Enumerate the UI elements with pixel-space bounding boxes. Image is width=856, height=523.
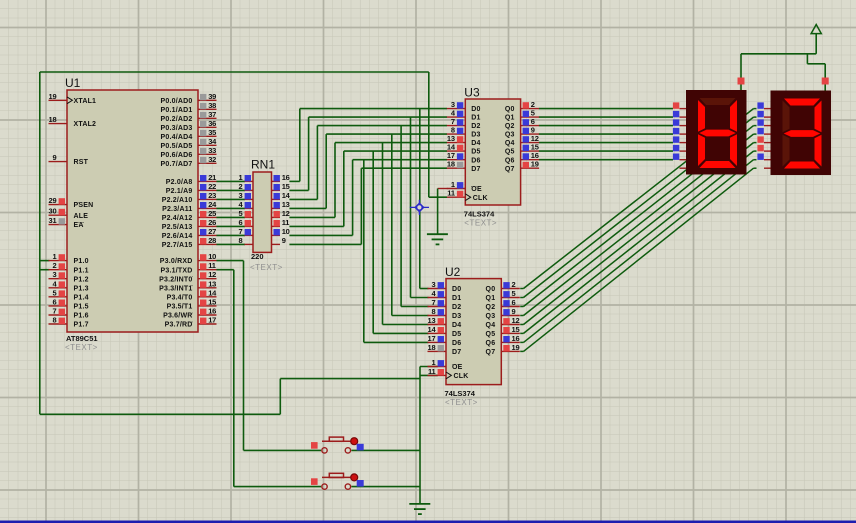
svg-text:13: 13: [428, 316, 436, 325]
RN1 pin 6: [239, 218, 253, 227]
svg-text:11: 11: [428, 367, 436, 376]
svg-text:27: 27: [208, 227, 216, 236]
svg-text:P3.0/RXD: P3.0/RXD: [160, 258, 193, 265]
wire: P2.0 to RN1 pin 1: [216, 180, 245, 182]
svg-text:D7: D7: [471, 166, 480, 173]
svg-text:P2.0/A8: P2.0/A8: [166, 179, 193, 186]
svg-text:P2.4/A12: P2.4/A12: [162, 215, 193, 222]
RN1 pin 10: [272, 227, 290, 236]
svg-text:P1.4: P1.4: [74, 294, 89, 301]
wire: P2.4 to RN1 pin 5: [216, 216, 245, 218]
svg-text:XTAL2: XTAL2: [74, 121, 97, 128]
svg-text:14: 14: [282, 191, 291, 200]
ground (bottom rail): [409, 504, 430, 514]
U1 pin 18 (XTAL2): [49, 115, 68, 124]
7-segment display DS2 (shows 3): [757, 91, 831, 176]
svg-text:Q3: Q3: [486, 313, 496, 320]
wire: P2.7 to RN1 pin 8: [216, 243, 245, 245]
svg-text:3: 3: [239, 191, 243, 200]
svg-text:1: 1: [53, 252, 57, 261]
DS2 segment pin 5: [764, 150, 771, 152]
RN1 pin 2: [239, 182, 253, 191]
svg-text:P2.1/A9: P2.1/A9: [166, 188, 193, 195]
U2 pin 13 (D4): [428, 316, 447, 325]
wire: U3 Q5 to display DS1 segment pin: [539, 150, 673, 152]
svg-text:OE: OE: [471, 186, 482, 193]
svg-text:5: 5: [512, 289, 516, 298]
svg-text:P3.4/T0: P3.4/T0: [167, 294, 193, 301]
svg-text:11: 11: [208, 261, 216, 270]
svg-text:D1: D1: [471, 115, 480, 122]
wire: branch down to U2 D6: [364, 160, 429, 343]
svg-text:18: 18: [49, 115, 57, 124]
svg-text:D6: D6: [471, 157, 480, 164]
svg-text:P0.2/AD2: P0.2/AD2: [161, 116, 193, 123]
latch U3 74LS374: [447, 86, 539, 228]
svg-text:74LS374: 74LS374: [464, 210, 495, 219]
svg-text:26: 26: [208, 218, 216, 227]
svg-text:14: 14: [208, 288, 217, 297]
svg-text:11: 11: [447, 189, 455, 198]
U3 pin 12 (Q4): [521, 134, 540, 143]
svg-text:AT89C51: AT89C51: [66, 334, 98, 343]
U2 pin 19 (Q7): [501, 343, 520, 352]
svg-text:P1.3: P1.3: [74, 285, 89, 292]
svg-text:P1.5: P1.5: [74, 304, 89, 311]
svg-text:D5: D5: [471, 149, 480, 156]
svg-text:D2: D2: [471, 123, 480, 130]
wire: P3.0/RXD to button 1: [216, 261, 321, 451]
svg-text:Q7: Q7: [486, 349, 496, 356]
svg-text:8: 8: [53, 316, 57, 325]
U3 pin 17 (D6): [447, 151, 466, 160]
U3 pin 3 (D0): [447, 100, 466, 109]
RN1 pin 14: [272, 191, 291, 200]
7-segment display DS1 (shows U with middle bar): [673, 90, 747, 175]
U2 pin 18 (D7): [428, 343, 447, 352]
svg-text:CLK: CLK: [473, 195, 488, 202]
svg-text:P3.1/TXD: P3.1/TXD: [161, 267, 193, 274]
U1 pin 34 (P0.5/AD5): [198, 137, 217, 146]
U3 pin 15 (Q5): [521, 143, 540, 152]
U1 pin 16 (P3.6/WR): [198, 307, 217, 316]
svg-text:P2.6/A14: P2.6/A14: [162, 233, 193, 240]
RN1 pin 11: [272, 218, 290, 227]
svg-text:35: 35: [208, 128, 216, 137]
wire: branch down to U2 D5: [373, 151, 428, 333]
U1 pin 28 (P2.7/A15): [198, 236, 217, 245]
RN1 pin 4: [239, 200, 253, 209]
svg-text:12: 12: [208, 270, 216, 279]
DS1 segment pin 3: [680, 133, 687, 135]
U1 pin 9 (RST): [49, 153, 68, 162]
wire: branch down to U2 D1: [411, 117, 429, 297]
svg-text:28: 28: [208, 236, 216, 245]
svg-text:2: 2: [53, 261, 57, 270]
U3 pin 11 (CLK): [447, 189, 466, 198]
svg-text:12: 12: [512, 316, 520, 325]
svg-text:EA: EA: [74, 222, 84, 229]
svg-text:18: 18: [447, 160, 455, 169]
svg-text:D4: D4: [471, 140, 480, 147]
svg-text:10: 10: [282, 227, 290, 236]
wire: U3 Q6 to display DS1 segment pin: [539, 159, 673, 161]
svg-text:RN1: RN1: [251, 158, 275, 172]
RN1 pin 7: [239, 227, 253, 236]
wire: RN1 pin 16 up to U3 D0: [289, 109, 447, 182]
svg-text:74LS374: 74LS374: [445, 389, 476, 398]
U1 pin 26 (P2.5/A13): [198, 218, 217, 227]
svg-text:P3.3/INT1: P3.3/INT1: [159, 285, 192, 292]
U1 pin 32 (P0.7/AD7): [198, 155, 217, 164]
wire: U3 Q0 to display DS1 segment pin: [539, 108, 673, 110]
U1 pin 14 (P3.4/T0): [198, 288, 217, 297]
U2 pin 9 (Q3): [501, 307, 520, 316]
svg-text:Q2: Q2: [505, 123, 515, 130]
RN1 pin 1: [239, 173, 253, 182]
svg-text:34: 34: [208, 137, 217, 146]
svg-text:D5: D5: [452, 331, 461, 338]
U3 pin 19 (Q7): [521, 160, 540, 169]
power rail VCC to displays: [741, 34, 825, 91]
svg-text:24: 24: [208, 200, 217, 209]
svg-text:P2.5/A13: P2.5/A13: [162, 224, 193, 231]
svg-text:OE: OE: [452, 364, 463, 371]
svg-text:P3.2/INT0: P3.2/INT0: [159, 276, 192, 283]
svg-text:<TEXT>: <TEXT>: [464, 219, 497, 228]
U3 pin 7 (D2): [447, 117, 466, 126]
svg-text:D7: D7: [452, 349, 461, 356]
U1 pin 1 (P1.0): [49, 252, 68, 261]
svg-text:9: 9: [282, 236, 286, 245]
wire: U2 Q1 diagonal to display DS2 pin: [520, 117, 756, 297]
svg-text:15: 15: [512, 325, 520, 334]
DS1 segment pin 1: [680, 116, 687, 118]
svg-text:PSEN: PSEN: [74, 202, 94, 209]
wire: RN1 pin 15 up to U3 D1: [289, 117, 447, 190]
U1 pin 4 (P1.3): [49, 279, 68, 288]
svg-text:14: 14: [428, 325, 437, 334]
svg-text:16: 16: [208, 307, 216, 316]
svg-text:Q4: Q4: [505, 140, 515, 147]
DS2 segment pin 3: [764, 133, 771, 135]
U3 pin 4 (D1): [447, 109, 466, 118]
U3 pin 1 (OE): [447, 180, 466, 189]
svg-text:13: 13: [208, 279, 216, 288]
svg-text:19: 19: [512, 343, 520, 352]
wire: branch down to U2 D2: [401, 126, 428, 307]
U1 pin 22 (P2.1/A9): [198, 182, 217, 191]
DS1 segment pin 4: [680, 142, 687, 144]
DS2 segment pin 0: [764, 108, 771, 110]
wire: branch down to U2 D0: [420, 109, 429, 289]
svg-text:U1: U1: [65, 76, 81, 90]
wire: U2 Q0 diagonal to display DS2 pin: [520, 109, 756, 289]
RN1 pin 12: [272, 209, 290, 218]
svg-text:P0.4/AD4: P0.4/AD4: [161, 134, 193, 141]
svg-text:U2: U2: [445, 265, 461, 279]
svg-text:25: 25: [208, 209, 216, 218]
U1 pin 10 (P3.0/RXD): [198, 252, 217, 261]
wire: branch down to U2 D3: [392, 134, 429, 315]
push button 1: [311, 437, 364, 453]
DS1 segment c: [730, 134, 737, 166]
DS2 segment pin 7: [764, 167, 771, 169]
DS2 segment g: [784, 130, 821, 137]
wire: riser at x=280: [279, 379, 281, 415]
U1 pin 36 (P0.3/AD3): [198, 119, 217, 128]
U1 pin 31 (EA): [49, 216, 68, 225]
DS1 segment pin 0: [680, 108, 687, 110]
wire: U2 OE link: [420, 366, 438, 368]
U1 pin 37 (P0.2/AD2): [198, 110, 217, 119]
svg-text:P0.3/AD3: P0.3/AD3: [161, 125, 193, 132]
U3 pin 14 (D5): [447, 143, 466, 152]
U1 pin 6 (P1.5): [49, 297, 68, 306]
svg-text:D6: D6: [452, 340, 461, 347]
DS1 segment pin 2: [680, 125, 687, 127]
svg-text:P1.6: P1.6: [74, 313, 89, 320]
svg-text:D3: D3: [471, 132, 480, 139]
U1 pin 15 (P3.5/T1): [198, 297, 217, 306]
wire: P2.2 to RN1 pin 3: [216, 198, 245, 200]
DS2 segment pin 1: [764, 116, 771, 118]
svg-text:D2: D2: [452, 304, 461, 311]
wire: U2 Q6 diagonal to display DS2 pin: [520, 160, 756, 343]
svg-text:220: 220: [251, 252, 264, 261]
wire: RN1 pin 14 up to U3 D2: [289, 126, 447, 200]
wire: U3 Q2 to display DS1 segment pin: [539, 125, 673, 127]
wire: horizontal to U2 CLK junction: [280, 378, 420, 380]
DS1 segment pin 5: [680, 150, 687, 152]
svg-text:1: 1: [451, 180, 455, 189]
wire: RN1 pin 12 up to U3 D4: [289, 143, 447, 218]
op chip U1 AT89C51: [49, 76, 218, 352]
U2 pin 5 (Q1): [501, 289, 520, 298]
svg-text:17: 17: [428, 334, 436, 343]
wire: U2 Q7 diagonal to display DS2 pin: [520, 168, 756, 351]
svg-text:23: 23: [208, 191, 216, 200]
svg-text:21: 21: [208, 173, 216, 182]
svg-text:36: 36: [208, 119, 216, 128]
svg-text:D0: D0: [471, 106, 480, 113]
svg-text:U3: U3: [464, 86, 480, 100]
U2 pin 17 (D6): [428, 334, 447, 343]
svg-text:RST: RST: [74, 159, 89, 166]
DS1 segment d: [700, 161, 736, 168]
RN1 pin 5: [239, 209, 253, 218]
svg-text:Q2: Q2: [486, 304, 496, 311]
latch U2 74LS374: [428, 265, 520, 407]
svg-text:6: 6: [239, 218, 243, 227]
svg-text:Q5: Q5: [505, 149, 515, 156]
svg-text:P2.7/A15: P2.7/A15: [162, 242, 193, 249]
wire: U2 Q3 diagonal to display DS2 pin: [520, 134, 756, 315]
wire: net P1.0/P1.1 left vertical: [39, 72, 41, 414]
DS1 segment a: [700, 98, 736, 105]
window bottom edge: [0, 521, 856, 523]
svg-text:Q6: Q6: [505, 157, 515, 164]
RN1 pin 13: [272, 200, 290, 209]
U2 pin 16 (Q6): [501, 334, 520, 343]
U3 pin 6 (Q2): [521, 117, 540, 126]
svg-text:9: 9: [512, 307, 516, 316]
svg-text:P1.2: P1.2: [74, 276, 89, 283]
svg-text:Q3: Q3: [505, 132, 515, 139]
svg-text:P0.5/AD5: P0.5/AD5: [161, 143, 193, 150]
svg-text:Q0: Q0: [505, 106, 515, 113]
svg-text:13: 13: [282, 200, 290, 209]
svg-text:1: 1: [432, 358, 436, 367]
svg-text:Q5: Q5: [486, 331, 496, 338]
svg-text:3: 3: [432, 280, 436, 289]
push button 2: [311, 473, 364, 489]
U2 pin 8 (D3): [428, 307, 447, 316]
svg-text:39: 39: [208, 92, 216, 101]
U2 pin 15 (Q5): [501, 325, 520, 334]
svg-text:1: 1: [239, 173, 243, 182]
svg-text:31: 31: [49, 216, 57, 225]
svg-text:2: 2: [512, 280, 516, 289]
svg-text:Q1: Q1: [505, 115, 515, 122]
wire: P2.6 to RN1 pin 7: [216, 234, 245, 236]
wire: P2.1 to RN1 pin 2: [216, 189, 245, 191]
U1 pin 29 (PSEN): [49, 196, 68, 205]
svg-text:P3.5/T1: P3.5/T1: [167, 304, 193, 311]
svg-text:29: 29: [49, 196, 57, 205]
DS1 segment f: [698, 100, 705, 132]
svg-text:CLK: CLK: [454, 373, 469, 380]
wire: P2.5 to RN1 pin 6: [216, 225, 245, 227]
RN1 pin 16: [272, 173, 290, 182]
U2 pin 4 (D1): [428, 289, 447, 298]
wire: U2 Q4 diagonal to display DS2 pin: [520, 143, 756, 325]
wire: RN1 pin 11 up to U3 D5: [289, 151, 447, 226]
svg-text:19: 19: [531, 160, 539, 169]
wire: P1.1 tap: [40, 269, 50, 271]
U1 pin 8 (P1.7): [49, 316, 68, 325]
U1 pin 7 (P1.6): [49, 307, 68, 316]
wire: U2 Q2 diagonal to display DS2 pin: [520, 126, 756, 307]
wire: P1.0 tap: [40, 260, 50, 262]
U1 pin 12 (P3.2/INT0): [198, 270, 217, 279]
wire: U3 Q1 to display DS1 segment pin: [539, 116, 673, 118]
svg-text:7: 7: [432, 298, 436, 307]
U1 pin 24 (P2.3/A11): [198, 200, 217, 209]
svg-text:XTAL1: XTAL1: [74, 98, 97, 105]
U1 pin 13 (P3.3/INT1): [198, 279, 217, 288]
svg-text:7: 7: [53, 307, 57, 316]
svg-text:P3.7/RD: P3.7/RD: [165, 322, 193, 329]
U2 pin 12 (Q4): [501, 316, 520, 325]
svg-text:P1.1: P1.1: [74, 267, 89, 274]
svg-text:19: 19: [49, 92, 57, 101]
RN1 pin 8: [239, 236, 253, 245]
DS1 segment pin 6: [680, 159, 687, 161]
svg-text:3: 3: [53, 270, 57, 279]
wire: top horizontal to U3 CLK: [40, 71, 429, 73]
svg-text:22: 22: [208, 182, 216, 191]
U1 pin 3 (P1.2): [49, 270, 68, 279]
DS2 segment f: [783, 101, 790, 133]
power arrow symbol: [811, 25, 821, 34]
svg-text:12: 12: [282, 209, 290, 218]
DS2 segment pin 4: [764, 142, 771, 144]
svg-text:P1.0: P1.0: [74, 258, 89, 265]
svg-text:38: 38: [208, 101, 216, 110]
U1 pin 17 (P3.7/RD): [198, 316, 217, 325]
wire: vertical to bottom ground: [419, 367, 421, 504]
DS2 common anode top pin: [822, 78, 829, 85]
svg-text:15: 15: [282, 182, 290, 191]
svg-text:D0: D0: [452, 286, 461, 293]
wire: bottom horizontal of loop: [40, 413, 280, 415]
svg-text:10: 10: [208, 252, 216, 261]
U1 pin 2 (P1.1): [49, 261, 68, 270]
U1 pin 23 (P2.2/A10): [198, 191, 217, 200]
U1 pin 11 (P3.1/TXD): [198, 261, 217, 270]
svg-text:18: 18: [428, 343, 436, 352]
svg-text:Q7: Q7: [505, 166, 515, 173]
U1 pin 21 (P2.0/A8): [198, 173, 217, 182]
svg-text:11: 11: [282, 218, 290, 227]
wire: U3 Q4 to display DS1 segment pin: [539, 142, 673, 144]
DS1 segment b: [730, 100, 737, 132]
wire: into U3 CLK pin: [429, 196, 447, 198]
U3 pin 18 (D7): [447, 160, 466, 169]
wire: P2.3 to RN1 pin 4: [216, 207, 245, 209]
wire: RN1 pin 9 up to U3 D7: [289, 168, 447, 244]
wire: U3 Q3 to display DS1 segment pin: [539, 133, 673, 135]
svg-text:P0.6/AD6: P0.6/AD6: [161, 152, 193, 159]
U3 pin 8 (D3): [447, 126, 466, 135]
DS2 segment a: [784, 99, 820, 106]
U3 pin 16 (Q6): [521, 151, 540, 160]
U1 pin 30 (ALE): [49, 207, 68, 216]
RN1 pin 3: [239, 191, 253, 200]
svg-text:Q0: Q0: [486, 286, 496, 293]
svg-text:33: 33: [208, 146, 216, 155]
svg-text:P3.6/WR: P3.6/WR: [163, 313, 192, 320]
resistor network RN1 220: [239, 158, 291, 273]
svg-text:P0.1/AD1: P0.1/AD1: [161, 107, 193, 114]
U2 pin 1 (OE): [428, 358, 447, 367]
U2 pin 6 (Q2): [501, 298, 520, 307]
DS1 segment g: [699, 130, 736, 137]
U1 pin 19 (XTAL1): [49, 92, 68, 101]
svg-text:ALE: ALE: [74, 213, 89, 220]
svg-text:15: 15: [208, 297, 216, 306]
svg-text:16: 16: [282, 173, 290, 182]
origin marker (blue diamond): [410, 200, 429, 215]
svg-text:32: 32: [208, 155, 216, 164]
ground (below U3): [427, 234, 448, 244]
U1 pin 5 (P1.4): [49, 288, 68, 297]
RN1 pin 9: [272, 236, 286, 245]
svg-text:P2.2/A10: P2.2/A10: [162, 197, 193, 204]
wire: P3.1/TXD to button 2: [216, 270, 321, 487]
svg-text:Q6: Q6: [486, 340, 496, 347]
wire: button 1 right side to ground rail: [351, 449, 420, 451]
U2 pin 11 (CLK): [428, 367, 447, 376]
U3 pin 9 (Q3): [521, 126, 540, 135]
svg-text:P0.7/AD7: P0.7/AD7: [161, 161, 193, 168]
svg-text:8: 8: [239, 236, 243, 245]
svg-text:9: 9: [53, 153, 57, 162]
DS2 segment b: [815, 101, 822, 133]
DS1 common anode top pin: [738, 78, 745, 85]
svg-text:D1: D1: [452, 295, 461, 302]
